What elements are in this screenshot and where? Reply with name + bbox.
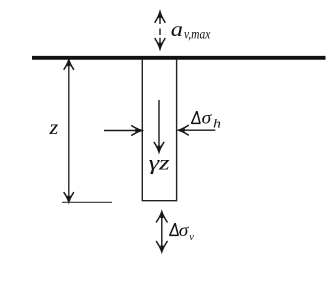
right horizontal arrow shaft (180, 129, 215, 131)
left horizontal arrow head (132, 126, 142, 136)
z dimension line shaft (68, 60, 70, 202)
svg-text:v: v (189, 231, 194, 243)
svg-text:a: a (171, 18, 183, 40)
z dimension : bottom arrowhead (64, 193, 74, 202)
bottom vertical double arrow shaft (161, 212, 163, 252)
svg-text:v,max: v,max (184, 28, 211, 43)
right horizontal arrow head (179, 125, 189, 135)
svg-text:z: z (48, 117, 58, 139)
z dimension : top arrowhead (64, 60, 74, 69)
label delta sigma v : Delta triangle (170, 223, 179, 235)
svg-text:γz: γz (149, 153, 170, 175)
tick line at bottom of z dimension (62, 201, 112, 203)
arrow a_v,max : down arrowhead (155, 39, 165, 49)
svg-text:σ: σ (202, 108, 213, 128)
arrow a_v,max : up arrowhead (155, 12, 165, 22)
gamma-z down arrow shaft inside column (158, 100, 160, 151)
bottom double arrow : up arrowhead (156, 212, 167, 222)
bottom double arrow : down arrowhead (156, 242, 167, 252)
arrow a_v,max : dashed shaft (159, 12, 161, 49)
svg-text:h: h (213, 116, 221, 131)
gamma-z down arrowhead (154, 142, 164, 152)
soil column (rectangle, open top) (142, 59, 176, 201)
left horizontal arrow shaft (104, 130, 140, 132)
label delta sigma h : Delta triangle (192, 111, 201, 123)
ground surface line (32, 56, 326, 60)
svg-text:σ: σ (179, 220, 190, 240)
